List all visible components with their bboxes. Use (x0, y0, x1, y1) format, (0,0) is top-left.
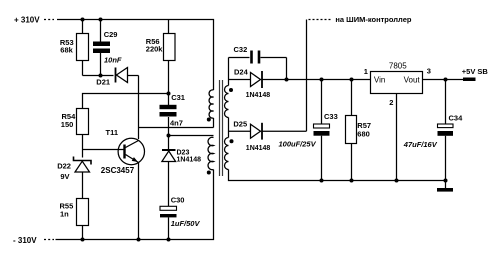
svg-text:1: 1 (364, 67, 368, 76)
svg-text:C30: C30 (171, 196, 185, 205)
svg-text:C29: C29 (104, 30, 118, 39)
svg-text:D24: D24 (234, 68, 249, 77)
svg-text:+ 310V: + 310V (14, 16, 40, 25)
svg-text:4n7: 4n7 (170, 119, 183, 128)
svg-text:C34: C34 (449, 114, 464, 123)
svg-text:680: 680 (357, 129, 370, 138)
svg-text:47uF/16V: 47uF/16V (403, 140, 438, 149)
svg-text:D25: D25 (233, 119, 247, 128)
svg-text:2: 2 (389, 98, 393, 107)
svg-text:2SC3457: 2SC3457 (101, 166, 135, 175)
svg-text:D22: D22 (57, 161, 71, 170)
svg-text:C32: C32 (234, 45, 248, 54)
svg-text:1N4148: 1N4148 (246, 92, 271, 99)
svg-text:Vout: Vout (404, 76, 421, 85)
svg-text:9V: 9V (60, 172, 69, 181)
svg-text:7805: 7805 (389, 61, 407, 70)
svg-text:10nF: 10nF (104, 56, 122, 65)
svg-text:Vin: Vin (374, 76, 385, 85)
svg-text:68k: 68k (60, 46, 73, 55)
svg-text:- 310V: - 310V (13, 236, 37, 245)
svg-text:220k: 220k (146, 45, 164, 54)
svg-text:1uF/50V: 1uF/50V (171, 219, 201, 228)
svg-text:100uF/25V: 100uF/25V (279, 140, 317, 149)
svg-text:C33: C33 (324, 112, 338, 121)
svg-text:C31: C31 (171, 93, 185, 102)
svg-text:150: 150 (61, 120, 74, 129)
svg-text:1N4148: 1N4148 (246, 145, 271, 152)
svg-text:1N4148: 1N4148 (177, 156, 202, 163)
svg-text:1n: 1n (60, 210, 69, 219)
svg-text:T11: T11 (106, 128, 119, 137)
svg-text:на ШИМ-контроллер: на ШИМ-контроллер (335, 15, 411, 24)
svg-text:3: 3 (427, 67, 431, 76)
svg-text:D21: D21 (96, 78, 110, 87)
svg-text:+5V SB: +5V SB (462, 67, 489, 76)
